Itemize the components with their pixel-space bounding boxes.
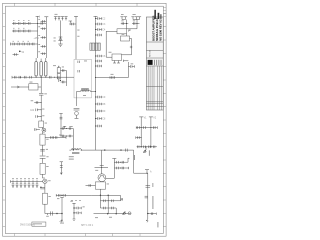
capacitor C42: [57, 76, 59, 79]
node dot bus 118: [95, 118, 96, 119]
wire row1 to busB: [45, 22, 46, 24]
wire main horizontal lower: [96, 149, 134, 151]
node dot K1: [60, 80, 61, 81]
label smudge relay: [53, 64, 56, 67]
ground hook: [146, 217, 148, 223]
svg-text:SHT 1 OF 1: SHT 1 OF 1: [81, 225, 94, 227]
transistor Q1 internals: [99, 176, 104, 179]
label smudge r3r: [46, 138, 48, 141]
node TP1 dot: [43, 130, 44, 131]
label smudge r2c: [23, 27, 25, 30]
power bar bus B: [44, 16, 48, 18]
note box bottom: [32, 222, 46, 226]
inductor L1 core: [81, 88, 89, 91]
mark right of U2: [128, 30, 130, 32]
node dot filter r1b: [150, 127, 151, 128]
wire L1 to bus: [77, 91, 96, 93]
revision table verticals: [148, 66, 161, 110]
label smudge c36: [131, 62, 134, 65]
node dot rows left b: [66, 136, 67, 137]
wire row 3: [11, 43, 38, 45]
node decoupling vertical: [72, 203, 75, 219]
frame zone ticks left: [3, 13, 6, 226]
node main bus: [95, 16, 97, 149]
wire cluster join: [128, 158, 129, 162]
label T1 text2: [69, 159, 74, 160]
resistor R1 ticks: [110, 76, 115, 79]
end bar R4: [65, 136, 67, 138]
capacitor C84: [117, 167, 119, 170]
transformer T2: [90, 43, 100, 50]
label smudge r5: [46, 165, 48, 168]
capacitor C81: [153, 146, 155, 149]
node dot row2 b: [22, 31, 23, 32]
power bar left lower: [60, 161, 63, 163]
node dot chain 101: [41, 102, 42, 103]
resistor R2: [39, 121, 44, 128]
wire right cluster vertical: [106, 159, 114, 179]
label smudge c59: [57, 197, 59, 200]
capacitor C89 stub: [70, 23, 76, 26]
label smudge J1: [55, 13, 58, 16]
capacitor C27: [96, 60, 102, 63]
wire filter row1: [136, 126, 157, 128]
label smudge feed: [111, 73, 114, 76]
title block divider lines: [146, 42, 163, 66]
connector pins J1: [54, 17, 68, 21]
cluster under L1 circle: [75, 112, 79, 116]
label smudge q1: [95, 169, 98, 172]
node dot b: [56, 213, 57, 214]
label smudge c46: [42, 114, 44, 117]
wire TP1 to R3: [42, 128, 44, 135]
node dot filter mid: [146, 146, 147, 147]
capacitor C32: [96, 117, 102, 120]
node dot grid a: [72, 200, 73, 201]
polarity circle: [128, 212, 131, 215]
capacitor C29: [96, 96, 102, 99]
label smudge r2b: [18, 27, 20, 30]
wire K1 left: [58, 66, 60, 82]
wire K1 right vertical: [66, 71, 68, 87]
label smudge m1: [48, 179, 50, 182]
label smudge r1b: [18, 19, 20, 22]
wire chain lower: [42, 145, 44, 155]
label smudge busB e: [38, 50, 40, 53]
node dot row2 a: [17, 31, 18, 32]
capacitor C33: [96, 125, 102, 128]
wire J1 stub: [60, 20, 62, 36]
label smudge v1b: [77, 35, 79, 38]
node dot bus 111: [95, 111, 96, 112]
node dot l: [147, 213, 148, 214]
tick c58: [47, 214, 49, 216]
capacitor C43 polarized: [39, 93, 44, 102]
inductor L1: [81, 90, 91, 91]
wire row 2: [12, 30, 38, 32]
label smudge c48: [46, 148, 48, 151]
capacitor C17: [41, 36, 47, 39]
node dot bus 77: [95, 77, 96, 78]
coil pill L2: [35, 62, 37, 77]
label smudge c45: [42, 108, 44, 111]
capacitor C49 polarized: [40, 156, 46, 163]
relay K1 box upper: [57, 68, 60, 73]
wire rail under pills: [12, 76, 74, 78]
capacitor C85: [122, 167, 124, 170]
node dot d: [104, 150, 105, 151]
node dot rail pills b: [41, 77, 42, 78]
arrow row r1 end: [120, 199, 122, 201]
capacitor C65: [62, 135, 64, 138]
capacitor C47: [34, 128, 40, 131]
power bar v1: [139, 116, 143, 118]
capacitor C63: [62, 127, 64, 130]
wire J2 rails: [122, 19, 140, 21]
power bar V1: [74, 15, 78, 17]
capacitor C48: [40, 149, 45, 151]
node dot row3 d: [31, 44, 32, 45]
label smudge U2: [128, 29, 131, 32]
node dot J2 a: [126, 23, 127, 24]
capacitor C26: [96, 55, 102, 58]
capacitor C57: [40, 187, 45, 189]
ground bar rail left: [11, 76, 13, 79]
node dot bus 91: [95, 91, 96, 92]
node dot bus 18: [95, 18, 96, 19]
node dot row1 a: [17, 23, 18, 24]
node dot rail pills e: [54, 77, 55, 78]
node dot rowr1: [108, 200, 109, 201]
wire chain: [40, 101, 42, 121]
cluster under L1 tail: [75, 115, 79, 118]
label smudge J2: [121, 13, 124, 16]
wire U4 bottom pins: [113, 61, 120, 64]
node dot bus 35: [95, 35, 96, 36]
capacitor C87: [145, 196, 148, 198]
capacitor C11: [18, 43, 20, 46]
node dot q1: [101, 167, 102, 168]
capacitor C54: [28, 182, 31, 188]
wire left mid vertical: [60, 114, 62, 137]
wire R3 right stub: [45, 137, 66, 139]
capacitor C44: [34, 101, 41, 104]
ticks above bottom-left row: [13, 180, 37, 182]
IC U3: [121, 36, 130, 41]
label smudge r1a: [13, 19, 15, 22]
capacitor C7: [18, 30, 20, 33]
resistor R3: [40, 134, 45, 145]
relay K1 box lower: [57, 74, 60, 79]
ground bar row 3: [10, 43, 12, 46]
capacitor C24: [96, 28, 102, 31]
capacitor C50: [12, 182, 15, 188]
node dot c59: [62, 195, 63, 196]
capacitor C35: [132, 22, 140, 25]
capacitor C73: [112, 207, 114, 210]
node dot bus 104: [95, 104, 96, 105]
node dot filter r1: [141, 127, 142, 128]
node bus B: [45, 17, 47, 58]
label smudge busB b: [38, 25, 40, 28]
meter M1 cross: [44, 180, 47, 183]
label smudge blrow g: [36, 177, 38, 180]
logo text rows: [154, 60, 162, 65]
capacitor C30: [96, 103, 102, 106]
power bar left mid: [59, 113, 62, 115]
footer text marks3: [109, 216, 112, 219]
power bar row a: [63, 126, 66, 128]
label smudge c49: [46, 155, 48, 158]
capacitor C58: [51, 211, 53, 215]
capacitor C59: [58, 194, 60, 197]
capacitor C52: [20, 182, 23, 188]
capacitor C82: [117, 161, 119, 164]
node dot row3 a: [16, 44, 17, 45]
capacitor C37: [61, 69, 67, 72]
capacitor C78: [137, 146, 139, 149]
label smudge r2r: [45, 122, 47, 125]
connector pins J2: [120, 17, 141, 20]
label smudge U4: [109, 51, 112, 54]
frame outer border: [3, 3, 167, 236]
IC Q1 box: [95, 182, 105, 189]
wire row 1: [12, 22, 45, 24]
wire left cap branch: [56, 194, 91, 197]
capacitor C39: [14, 76, 16, 79]
capacitor C34: [121, 22, 129, 25]
node dot row2 c: [27, 31, 28, 32]
label smudge r1d: [28, 19, 30, 22]
capacitor C53: [24, 182, 27, 188]
capacitor C75: [144, 126, 146, 129]
capacitor C8: [23, 30, 25, 33]
wire U4 to node: [124, 60, 129, 78]
label smudge r2a: [13, 27, 15, 30]
wire L1 left drop: [76, 92, 78, 107]
meter M1 circle: [43, 179, 47, 183]
label T1 text: [69, 156, 74, 157]
capacitor C28: [96, 65, 102, 68]
label smudge v1a: [77, 29, 79, 32]
transistor Q1 feed: [95, 150, 109, 174]
capacitor C16: [41, 27, 47, 30]
wire down to U2: [127, 20, 138, 29]
IC U2: [117, 29, 127, 34]
wire row r1: [100, 195, 120, 201]
capacitor C2: [18, 22, 20, 25]
node dot cluster b: [120, 168, 121, 169]
node dot row3 b: [21, 44, 22, 45]
ground arrow filter: [143, 150, 146, 153]
capacitor C20 top edge: [78, 61, 80, 63]
label plus: [130, 46, 133, 49]
capacitor C60: [64, 194, 66, 197]
node dot bus 29: [95, 29, 96, 30]
wire r2 drops: [108, 208, 116, 214]
wire filter row2: [136, 137, 141, 139]
label smudge J1b: [54, 37, 56, 40]
label smudge busB c: [38, 34, 40, 37]
capacitor C41: [49, 76, 51, 79]
capacitor C69: [125, 149, 127, 152]
ground arrow right: [123, 212, 126, 215]
frame zone ticks bottom: [15, 234, 141, 237]
node dot rail pills c: [45, 77, 46, 78]
capacitor C10: [13, 43, 15, 46]
node dot bus 61: [95, 61, 96, 62]
node dot 52: [19, 51, 21, 53]
wire mid bottom vertical: [60, 198, 63, 220]
sheet number text top right: [154, 10, 161, 19]
capacitor C22: [96, 17, 102, 20]
IC U4: [112, 54, 122, 61]
label smudge U3: [122, 33, 125, 36]
node dot K1 b: [58, 66, 59, 67]
capacitor C74: [138, 126, 140, 129]
note box text: [33, 222, 42, 225]
resistor R6: [43, 193, 48, 204]
node dot f: [100, 195, 101, 196]
coil pill L4: [45, 62, 47, 77]
capacitor C68: [60, 166, 63, 168]
capacitor C77: [138, 136, 140, 139]
node dot coil left: [73, 150, 74, 151]
node dot rail pills a: [36, 77, 37, 78]
label smudge c43: [44, 92, 47, 95]
revision cells right border top: [163, 8, 166, 17]
node dot dec b: [74, 212, 75, 213]
resistor R4 ticks: [51, 136, 57, 139]
transistor Q1 circle: [98, 174, 106, 182]
capacitor C55: [32, 182, 35, 188]
capacitor C13: [28, 43, 30, 46]
label smudge fl1: [30, 81, 33, 84]
capacitor C14: [32, 43, 34, 46]
label smudge vtext1: [151, 183, 154, 187]
label note text col2: [134, 155, 135, 160]
node dot filter r2: [141, 137, 142, 138]
label smudge c58: [46, 215, 49, 218]
coil pill L3: [40, 62, 42, 77]
capacitor C71: [112, 200, 114, 203]
corner text strip: [157, 222, 158, 227]
power bar T junction: [145, 169, 149, 171]
cluster under L1 cap a: [74, 108, 80, 110]
node dot h: [107, 213, 108, 214]
label smudge busB d: [38, 43, 40, 46]
node dot dec a: [74, 208, 75, 209]
wire Q1 box down: [91, 189, 120, 195]
power bar v2: [149, 116, 153, 118]
wire U4 left pin: [106, 31, 117, 57]
capacitor C88: [13, 53, 19, 56]
node dot a: [40, 187, 41, 188]
label smudge dec: [70, 200, 73, 203]
node chain dot: [40, 77, 42, 80]
capacitor C5: [41, 22, 43, 25]
wire feed line: [96, 77, 129, 79]
node dot grid c: [80, 200, 81, 201]
node dot cluster a: [120, 162, 121, 163]
wire cluster row2: [114, 167, 128, 169]
capacitor C31: [96, 110, 102, 113]
title block outline: [146, 17, 163, 110]
capacitor C12: [23, 43, 25, 46]
label smudge c35: [133, 19, 135, 22]
capacitor C40c: [19, 76, 21, 79]
capacitor C86: [146, 185, 151, 187]
module box M1: [74, 59, 92, 98]
capacitor C25: [96, 34, 102, 37]
wire R6 to bottom rail: [45, 204, 131, 214]
wire row r2: [100, 195, 116, 208]
wire long vertical V1: [75, 16, 77, 59]
node dot chain 116: [41, 116, 42, 117]
label smudge relay2: [62, 66, 64, 69]
footer text marks2: [60, 222, 64, 225]
label smudge r6: [48, 195, 50, 198]
label smudge blrow e: [28, 177, 30, 180]
label smudge blrow c: [20, 177, 22, 180]
capacitor C6: [13, 30, 15, 33]
end bar row1: [156, 126, 158, 128]
power bar row b: [69, 125, 72, 127]
wire coil feed: [72, 129, 74, 151]
node dot row1 c: [27, 23, 28, 24]
node dot k: [150, 146, 151, 147]
node dot chain 77: [41, 77, 42, 78]
label smudge modbox: [84, 60, 87, 63]
capacitor C51: [16, 182, 19, 188]
wire U3 to U4: [122, 54, 132, 56]
inductor T1 core: [72, 149, 79, 154]
ground arrow mid: [60, 220, 63, 223]
capacitor C36: [128, 65, 134, 68]
power bar bus A: [36, 15, 40, 17]
wire R5 to M1: [43, 174, 45, 178]
wire T1 leads: [69, 149, 95, 151]
capacitor C46: [36, 115, 41, 118]
node dot J2 b: [137, 23, 138, 24]
node dot rail pills d: [20, 77, 21, 78]
wire cluster row1: [114, 161, 128, 163]
label smudge J2b: [133, 13, 136, 16]
wire FL1 to chain: [38, 80, 41, 93]
label smudge r3d: [28, 40, 30, 43]
capacitor C40b: [30, 76, 32, 79]
revision table horizontals: [146, 87, 163, 107]
wire rows left mid: [60, 129, 73, 137]
wire U2 to U3: [127, 34, 132, 55]
capacitor C1: [13, 22, 15, 25]
wire M1 down: [44, 184, 46, 194]
node dot rows left a: [66, 128, 67, 129]
label smudge r3b: [18, 40, 20, 43]
label smudge busB a: [38, 18, 40, 21]
wire corner down: [134, 150, 148, 173]
capacitor C83: [122, 161, 124, 164]
label smudge r3c: [23, 40, 25, 43]
wire left lower vertical: [60, 162, 62, 175]
node dot row3 c: [26, 44, 27, 45]
test point TP1 circle: [42, 128, 46, 132]
capacitor C76: [154, 126, 156, 129]
label smudge blrow d: [24, 177, 26, 180]
footer text marks: [95, 216, 98, 219]
wire bottom right end: [148, 212, 157, 215]
node dot c: [61, 213, 62, 214]
